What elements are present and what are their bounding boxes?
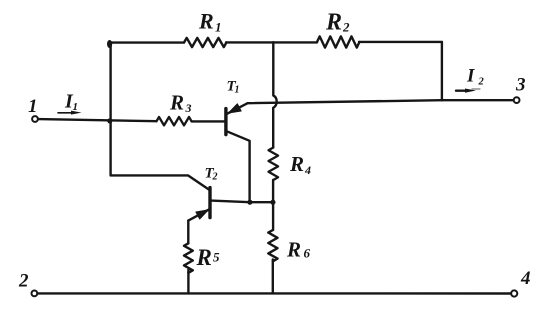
node junction input/left-rail — [107, 118, 112, 123]
wire R3 to T1 base — [192, 120, 225, 122]
label I1 with arrow — [64, 91, 78, 114]
label T1 — [227, 79, 240, 96]
svg-text:R: R — [196, 245, 212, 270]
wire T2 collector to center vertical — [250, 201, 273, 203]
svg-text:R: R — [286, 238, 301, 262]
svg-text:R: R — [325, 10, 342, 36]
label R3 — [169, 91, 192, 116]
label R4 — [289, 152, 311, 177]
wire top rail right segment — [359, 41, 442, 43]
svg-text:5: 5 — [213, 250, 220, 265]
svg-text:2: 2 — [342, 20, 350, 35]
resistor R1 — [184, 38, 226, 47]
svg-text:2: 2 — [18, 271, 29, 292]
wire T2 base from left rail — [111, 175, 209, 189]
wire top rail middle segment — [226, 41, 317, 43]
wire T1 emitter rail to corner — [248, 100, 442, 103]
resistor R6 — [268, 230, 277, 261]
node junction T1 collector / T2 collector — [247, 200, 252, 205]
terminal 4 — [511, 290, 517, 296]
svg-text:1: 1 — [235, 85, 240, 96]
svg-text:2: 2 — [212, 172, 218, 183]
resistor R5 — [184, 243, 193, 272]
transistor T1 — [226, 103, 250, 202]
wire T2 emitter down — [187, 221, 189, 244]
svg-text:1: 1 — [215, 20, 222, 35]
node junction collector rail / center vertical — [270, 200, 275, 205]
terminal 2 — [32, 291, 38, 297]
node top-left corner blob — [107, 40, 112, 48]
svg-text:6: 6 — [304, 246, 311, 261]
label I2 with arrow — [466, 66, 485, 88]
terminal 3 — [514, 97, 520, 103]
label R6 — [286, 238, 311, 262]
wire input from terminal 1 — [38, 119, 157, 121]
svg-text:R: R — [289, 152, 304, 176]
label R5 — [196, 245, 221, 270]
wire top rail left segment — [111, 41, 185, 43]
resistor R4 — [269, 148, 279, 180]
terminal 1 — [32, 116, 38, 122]
svg-text:4: 4 — [520, 268, 531, 289]
wire left vertical rail — [109, 43, 111, 176]
transistor T2 — [188, 188, 250, 221]
wire R6 to bottom rail — [272, 260, 274, 294]
label T2 — [205, 166, 218, 183]
svg-text:4: 4 — [304, 163, 311, 177]
wire center vertical lower — [272, 180, 274, 230]
svg-text:1: 1 — [28, 96, 38, 117]
label R2 — [325, 10, 350, 36]
svg-text:3: 3 — [185, 101, 192, 115]
svg-text:R: R — [198, 9, 214, 34]
wire center vertical upper — [273, 42, 276, 147]
wire right vertical drop from R2 — [441, 42, 443, 100]
svg-text:2: 2 — [478, 77, 485, 88]
wire R5 to bottom rail — [187, 270, 189, 294]
wire corner to terminal 3 — [442, 99, 514, 101]
label R1 — [198, 9, 222, 35]
svg-text:I: I — [466, 66, 475, 87]
resistor R2 — [317, 36, 359, 47]
resistor R3 — [157, 117, 192, 125]
svg-text:R: R — [169, 91, 184, 115]
svg-text:3: 3 — [515, 75, 526, 96]
wire bottom rail — [37, 292, 511, 295]
